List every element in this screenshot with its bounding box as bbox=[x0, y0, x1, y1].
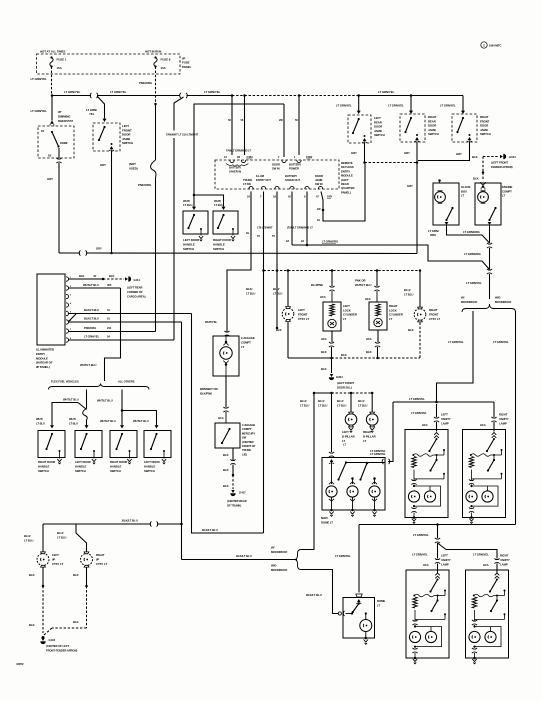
svg-text:1G: 1G bbox=[317, 219, 320, 222]
wire GRY down bbox=[416, 142, 418, 163]
engine compartment lamp assembly bbox=[481, 182, 486, 184]
wire vanity bus upper bbox=[393, 401, 494, 403]
vanity ground bbox=[470, 516, 473, 519]
node bus-left bbox=[51, 94, 54, 97]
left front door jamb switch bbox=[93, 123, 120, 151]
svg-text:WHT/LT BLU: WHT/LT BLU bbox=[80, 363, 96, 367]
node bbox=[366, 462, 369, 465]
wire bus to right front jamb switch bbox=[462, 96, 464, 112]
svg-text:LT GRN/YEL: LT GRN/YEL bbox=[370, 449, 386, 453]
svg-text:SWITCH: SWITCH bbox=[38, 469, 49, 473]
dome lamp post bbox=[365, 612, 367, 614]
connector on GRY bus bbox=[79, 250, 87, 255]
wire bus segment bbox=[187, 95, 233, 97]
connector C1 on bus bbox=[90, 93, 98, 98]
svg-text:RIGHT DOOR: RIGHT DOOR bbox=[110, 460, 127, 464]
wire pin5 BLK/LT BLU bbox=[68, 313, 192, 315]
svg-text:465: 465 bbox=[107, 283, 112, 287]
svg-text:LT BLU: LT BLU bbox=[358, 404, 367, 408]
wire down to G304 bbox=[331, 358, 333, 373]
wire WHT/LT BLU to split bbox=[105, 288, 121, 381]
svg-text:SWITCH: SWITCH bbox=[480, 132, 491, 136]
svg-text:WHT/LT BLU: WHT/LT BLU bbox=[133, 419, 149, 423]
svg-text:HANDLE: HANDLE bbox=[110, 465, 121, 469]
wire to rheostat bbox=[51, 96, 53, 121]
svg-text:POWER: POWER bbox=[289, 167, 299, 171]
svg-text:VANITY: VANITY bbox=[441, 558, 451, 562]
svg-text:PNK OR: PNK OR bbox=[355, 279, 366, 283]
svg-text:DOME LT: DOME LT bbox=[321, 521, 333, 525]
svg-text:HANDLE: HANDLE bbox=[183, 242, 195, 246]
svg-text:LUGGAGE: LUGGAGE bbox=[242, 423, 255, 427]
svg-text:BLK: BLK bbox=[73, 573, 79, 577]
right front courtesy lamp bbox=[414, 309, 426, 321]
ground G104 right bbox=[500, 155, 503, 158]
wire to 4th switch bbox=[122, 411, 157, 426]
svg-text:HANDLE: HANDLE bbox=[213, 242, 225, 246]
svg-text:C: C bbox=[483, 43, 485, 47]
svg-text:MOONROOF: MOONROOF bbox=[271, 550, 288, 554]
svg-text:MOONROOF: MOONROOF bbox=[495, 300, 512, 304]
svg-text:44872: 44872 bbox=[16, 662, 24, 666]
svg-text:BLK/LT BLU: BLK/LT BLU bbox=[122, 519, 138, 523]
svg-text:LT SW: LT SW bbox=[243, 182, 251, 186]
svg-text:SWITCH: SWITCH bbox=[374, 133, 385, 137]
connector bbox=[487, 269, 492, 274]
svg-text:BLK: BLK bbox=[109, 274, 114, 278]
node GRY junction bbox=[416, 161, 419, 164]
wire GRY long down bbox=[416, 163, 418, 254]
svg-text:FLEX FUEL VEHICLES: FLEX FUEL VEHICLES bbox=[51, 380, 79, 384]
wire lamp ground dashed bbox=[419, 323, 421, 359]
left front courtesy lamp bbox=[282, 308, 294, 320]
svg-text:BLK: BLK bbox=[79, 274, 84, 278]
wire to right b-pillar lamp bbox=[371, 393, 373, 412]
svg-text:GRY: GRY bbox=[351, 151, 357, 155]
wire pin6 BLK/LT BLU bbox=[68, 321, 182, 323]
wire W/O moonroof to dome switch bbox=[301, 570, 339, 614]
svg-text:RIGHT DOOR: RIGHT DOOR bbox=[213, 238, 232, 242]
wire to upper left vanity bbox=[434, 417, 439, 422]
svg-text:HCA: HCA bbox=[320, 295, 326, 299]
svg-text:G104: G104 bbox=[509, 155, 516, 159]
svg-text:G304: G304 bbox=[336, 375, 343, 379]
wire W/O moonroof bus bbox=[359, 524, 516, 526]
svg-text:ENTRY OUT: ENTRY OUT bbox=[256, 178, 271, 182]
svg-text:BLK: BLK bbox=[321, 367, 327, 371]
svg-text:(CENTER OF LEFT: (CENTER OF LEFT bbox=[46, 644, 69, 648]
svg-text:ILLUMINATED: ILLUMINATED bbox=[36, 348, 54, 352]
svg-text:GRY: GRY bbox=[407, 184, 413, 188]
svg-text:SWITCH: SWITCH bbox=[110, 469, 121, 473]
svg-text:LEFT DOOR: LEFT DOOR bbox=[75, 460, 91, 464]
right b-pillar lamp bbox=[366, 414, 378, 426]
svg-text:HANDLE: HANDLE bbox=[75, 465, 86, 469]
svg-text:BLU/: BLU/ bbox=[273, 287, 280, 291]
svg-text:W/O: W/O bbox=[495, 296, 501, 300]
right door handle switch bbox=[110, 431, 137, 458]
svg-text:HCA: HCA bbox=[321, 337, 327, 341]
node handle feed bbox=[193, 194, 196, 197]
wire to upper right vanity bbox=[491, 417, 496, 422]
node bbox=[102, 278, 105, 281]
node bbox=[376, 269, 379, 272]
rheostat case entry bbox=[50, 121, 54, 124]
svg-text:SW IN: SW IN bbox=[272, 167, 280, 171]
wire bus to module pin 13 bbox=[231, 96, 233, 156]
wire dashed BLK bbox=[332, 357, 378, 359]
node bbox=[331, 269, 334, 272]
svg-text:9A: 9A bbox=[286, 240, 289, 243]
svg-text:LT GRN/YEL: LT GRN/YEL bbox=[413, 533, 429, 537]
svg-text:CTSY LT: CTSY LT bbox=[429, 317, 440, 321]
svg-text:LT GRN/YEL: LT GRN/YEL bbox=[378, 90, 395, 94]
svg-text:LT GRN/YEL: LT GRN/YEL bbox=[335, 554, 351, 558]
wire glove lamp to connector bbox=[447, 225, 490, 243]
svg-text:BRN/WHT OR: BRN/WHT OR bbox=[200, 387, 218, 391]
harness split bracket bbox=[462, 304, 516, 312]
svg-text:LT GRN/YEL: LT GRN/YEL bbox=[336, 104, 352, 108]
svg-text:LEFT: LEFT bbox=[298, 308, 305, 312]
connector map feed bbox=[329, 452, 334, 457]
svg-text:VANITY: VANITY bbox=[499, 417, 509, 421]
wire b-pillar bus bbox=[314, 392, 332, 394]
wire bus dashed segment bbox=[299, 95, 359, 97]
svg-text:CTSY LT: CTSY LT bbox=[96, 562, 107, 566]
svg-text:GRY: GRY bbox=[327, 195, 333, 199]
svg-text:LEFT DOOR: LEFT DOOR bbox=[144, 460, 160, 464]
svg-text:PANEL): PANEL) bbox=[341, 190, 351, 194]
wire to left lock cylinder bbox=[331, 271, 333, 287]
svg-text:LT: LT bbox=[377, 604, 380, 608]
wire illum entry stub bbox=[276, 271, 278, 328]
right lock cylinder lamp bbox=[369, 302, 387, 330]
wire LT GRN/ORG run bbox=[292, 245, 490, 270]
luggage compt switch mercury bbox=[215, 423, 240, 448]
svg-text:RIGHT: RIGHT bbox=[363, 430, 372, 434]
wire to moonroof split bbox=[489, 274, 491, 299]
wire bus to right rear jamb switch bbox=[410, 96, 412, 112]
wire all others branch bbox=[121, 390, 123, 426]
dome lamp mid bbox=[347, 486, 358, 497]
connector bbox=[375, 342, 380, 347]
svg-text:PANEL: PANEL bbox=[182, 65, 192, 69]
wire pin2 WHT/LT BLU bbox=[68, 287, 121, 289]
svg-text:I/P PANEL): I/P PANEL) bbox=[36, 365, 50, 369]
wire BLK/LT BLU pin6 long run bbox=[181, 322, 183, 560]
svg-text:LAMP: LAMP bbox=[441, 421, 449, 425]
svg-text:LT BLU: LT BLU bbox=[36, 422, 45, 426]
svg-text:BATTERY: BATTERY bbox=[285, 174, 297, 178]
left vanity lamp upper assembly bbox=[405, 430, 448, 518]
wire illum entry out 2 bbox=[276, 192, 278, 271]
node bbox=[121, 409, 124, 412]
glove box lamp assembly bbox=[433, 183, 459, 225]
svg-text:LT6 LT2/WHT: LT6 LT2/WHT bbox=[257, 226, 273, 230]
svg-text:(CENTER REAR: (CENTER REAR bbox=[227, 499, 247, 503]
ground below right handle switch bbox=[232, 229, 234, 236]
svg-text:LT GRN/YEL: LT GRN/YEL bbox=[409, 397, 425, 401]
svg-text:BLU/: BLU/ bbox=[337, 399, 344, 403]
svg-text:BLK: BLK bbox=[321, 350, 327, 354]
node bbox=[287, 269, 290, 272]
svg-text:LT: LT bbox=[241, 345, 244, 349]
svg-text:LT BLU: LT BLU bbox=[404, 293, 413, 297]
svg-text:SWITCH: SWITCH bbox=[144, 469, 155, 473]
svg-text:G417: G417 bbox=[239, 491, 246, 495]
lamp grounds bbox=[331, 498, 333, 511]
wire luggage down bbox=[225, 376, 227, 407]
svg-text:LT BLU: LT BLU bbox=[214, 203, 223, 207]
svg-text:LT GRN/ORG: LT GRN/ORG bbox=[464, 252, 481, 256]
svg-text:SW: SW bbox=[242, 436, 247, 440]
svg-text:BLU/: BLU/ bbox=[300, 399, 307, 403]
wire GRY bus bbox=[59, 252, 80, 254]
svg-text:1994 MITC: 1994 MITC bbox=[489, 43, 501, 47]
svg-text:HCA: HCA bbox=[480, 423, 486, 427]
svg-text:LEFT: LEFT bbox=[342, 430, 349, 434]
wire GRY to junction bbox=[418, 142, 470, 161]
svg-text:CORNER OF: CORNER OF bbox=[127, 290, 143, 294]
svg-text:LT GRN/YEL: LT GRN/YEL bbox=[204, 90, 221, 94]
node pin9 junction bbox=[306, 244, 309, 247]
ground below left handle switch bbox=[200, 229, 202, 236]
svg-text:WHT/: WHT/ bbox=[69, 417, 76, 421]
node bus-358 bbox=[357, 94, 360, 97]
svg-text:WHT/LT BLU: WHT/LT BLU bbox=[100, 419, 116, 423]
connector bbox=[382, 459, 390, 464]
svg-text:DOME: DOME bbox=[60, 141, 68, 145]
svg-text:TRUNK: TRUNK bbox=[243, 178, 252, 182]
svg-text:BLK/LT BLU: BLK/LT BLU bbox=[236, 554, 252, 558]
split bracket flex fuel bbox=[49, 384, 150, 390]
svg-text:BLK/LT BLU: BLK/LT BLU bbox=[84, 317, 99, 321]
wire illum entry out 1 bbox=[263, 192, 265, 271]
svg-text:BLK/LT BLU: BLK/LT BLU bbox=[306, 593, 322, 597]
wire split to left switch bbox=[52, 403, 78, 426]
svg-text:LT GRN/YEL: LT GRN/YEL bbox=[84, 335, 100, 339]
node bus-411 bbox=[410, 94, 413, 97]
svg-text:(LEFT REAR: (LEFT REAR bbox=[127, 286, 142, 290]
svg-text:LT: LT bbox=[502, 194, 505, 198]
svg-text:TRUNK: TRUNK bbox=[242, 448, 251, 452]
svg-text:MOONROOF: MOONROOF bbox=[461, 300, 478, 304]
node bus-299 bbox=[298, 94, 301, 97]
wire GRY bus main bbox=[86, 252, 417, 255]
connector bbox=[374, 286, 379, 291]
wire jamb GRY down bbox=[111, 151, 113, 253]
wire fuse1 to bus bbox=[51, 67, 53, 96]
left door handle switch bbox=[183, 211, 208, 234]
node bbox=[419, 269, 422, 272]
wire to I/P courtesy lamps bbox=[157, 523, 182, 525]
wire to left front ctsy lamp bbox=[287, 271, 289, 307]
wire internal bus bbox=[346, 462, 385, 464]
map/dome lamp assembly bbox=[322, 458, 385, 511]
right door handle switch bbox=[38, 431, 65, 458]
left door handle switch bbox=[144, 431, 171, 458]
svg-text:FRONT OF: FRONT OF bbox=[242, 444, 256, 448]
svg-text:W/: W/ bbox=[461, 296, 465, 300]
fuse F1 bbox=[50, 56, 52, 58]
svg-text:LT: LT bbox=[343, 443, 346, 447]
entry arrows bbox=[192, 207, 196, 210]
svg-text:HCA: HCA bbox=[218, 416, 224, 420]
svg-text:BLK: BLK bbox=[472, 155, 478, 159]
svg-text:GRY: GRY bbox=[100, 163, 106, 167]
svg-text:DIMMING: DIMMING bbox=[58, 114, 71, 118]
svg-text:RHEOSTAT: RHEOSTAT bbox=[58, 119, 73, 123]
svg-text:PNK/ORG: PNK/ORG bbox=[84, 326, 96, 330]
svg-text:LUGGAGE: LUGGAGE bbox=[241, 336, 255, 340]
node bbox=[85, 585, 88, 588]
wire pin7 PNK/ORG bbox=[68, 331, 156, 333]
svg-text:BLK: BLK bbox=[73, 620, 79, 624]
svg-text:LT GRN/YEL: LT GRN/YEL bbox=[31, 109, 48, 113]
svg-text:BLU/: BLU/ bbox=[404, 288, 411, 292]
svg-text:COMPT: COMPT bbox=[241, 340, 251, 344]
fuse F8 bbox=[154, 56, 156, 58]
wire trunk lamp feed bbox=[227, 192, 251, 332]
svg-text:LT: LT bbox=[363, 439, 366, 443]
wire ground bus to G304 bbox=[288, 357, 332, 359]
wire bus down to dome bbox=[358, 525, 360, 593]
svg-text:TAN/LT GRN/WHD LT: TAN/LT GRN/WHD LT bbox=[226, 149, 251, 153]
wire left branch to map/dome bbox=[388, 402, 393, 462]
wire to right front ctsy lamp bbox=[419, 271, 421, 308]
svg-text:RIGHT DOOR: RIGHT DOOR bbox=[38, 460, 55, 464]
right vanity lamp lower assembly bbox=[466, 570, 509, 658]
module bottom pins bbox=[249, 186, 253, 189]
svg-text:LAMP: LAMP bbox=[500, 562, 508, 566]
svg-text:FENDER APRON): FENDER APRON) bbox=[491, 165, 513, 169]
wire branch to right handle switch bbox=[194, 195, 224, 207]
svg-text:BLK: BLK bbox=[408, 328, 414, 332]
svg-text:PNK/ORG: PNK/ORG bbox=[138, 183, 152, 187]
svg-text:I/P: I/P bbox=[52, 558, 55, 562]
wire BLK grounds bbox=[42, 568, 44, 587]
wire lock cyl ground bbox=[331, 331, 333, 342]
svg-text:LT BLU: LT BLU bbox=[246, 292, 255, 296]
wire map lamp feed bbox=[331, 393, 333, 452]
svg-text:WHT/YEL: WHT/YEL bbox=[205, 320, 218, 324]
connector bbox=[230, 459, 235, 464]
wire bus segment bbox=[97, 95, 180, 97]
svg-text:LT BLU: LT BLU bbox=[318, 404, 327, 408]
wire left ip lamp drop bbox=[42, 524, 44, 552]
svg-text:BLK/LT BLU: BLK/LT BLU bbox=[84, 308, 99, 312]
svg-text:(CENTER: (CENTER bbox=[242, 440, 254, 444]
wire pin8 LT GRN/YEL bbox=[68, 339, 174, 341]
right door handle switch bbox=[213, 211, 238, 234]
wire pin1 BLK to G414 bbox=[68, 278, 102, 280]
luggage compartment lamp bbox=[213, 336, 239, 376]
wire lamp ground bbox=[287, 322, 289, 358]
copyright mark bbox=[481, 42, 487, 48]
svg-text:CTSY LT: CTSY LT bbox=[52, 562, 63, 566]
wire bus to module pin 1B bbox=[244, 96, 246, 156]
wire PNK/ORG down with break bbox=[155, 104, 157, 160]
map lamp posts bbox=[351, 477, 354, 480]
wire bus to module pin 1 bbox=[298, 96, 300, 156]
svg-text:GRY: GRY bbox=[96, 247, 102, 251]
svg-text:LT GRN/ORG: LT GRN/ORG bbox=[463, 230, 480, 234]
svg-text:VANITY: VANITY bbox=[500, 558, 510, 562]
svg-text:LT BLU: LT BLU bbox=[273, 292, 282, 296]
svg-text:RIGHT: RIGHT bbox=[96, 553, 105, 557]
switch blade 2 bbox=[361, 463, 368, 480]
svg-text:9A: 9A bbox=[301, 240, 304, 243]
right front door jamb switch bbox=[452, 114, 477, 142]
node splice bbox=[322, 209, 325, 212]
ground G414 bbox=[125, 277, 128, 280]
connector below rheostat bbox=[56, 158, 61, 163]
svg-text:241: 241 bbox=[107, 326, 112, 330]
svg-text:DOOR: DOOR bbox=[272, 163, 280, 167]
svg-text:SAVER IN: SAVER IN bbox=[229, 170, 241, 174]
svg-text:WHT/LT BLU: WHT/LT BLU bbox=[97, 399, 113, 403]
node bbox=[350, 392, 353, 395]
wire bbox=[489, 248, 491, 269]
wire split to both vanities bbox=[437, 543, 439, 559]
svg-text:DOOR SILL): DOOR SILL) bbox=[337, 386, 352, 390]
svg-text:BLK: BLK bbox=[29, 623, 35, 627]
map lamp 1 bbox=[326, 486, 337, 497]
connector bbox=[494, 558, 499, 563]
svg-text:LT GRN/YEL: LT GRN/YEL bbox=[493, 340, 509, 344]
svg-text:FRONT: FRONT bbox=[298, 312, 308, 316]
node bbox=[313, 392, 316, 395]
node GRY dash bbox=[363, 161, 366, 164]
wire courtesy dashed bus bbox=[264, 270, 421, 272]
node fuse8 splice bbox=[154, 103, 157, 106]
wire BLK/LT BLU pin5 long run bbox=[192, 314, 264, 534]
svg-text:LT GRN/YEL: LT GRN/YEL bbox=[412, 553, 428, 557]
node bus-244 bbox=[243, 94, 246, 97]
node bbox=[262, 269, 265, 272]
svg-text:HCA: HCA bbox=[422, 423, 428, 427]
connector dome switch entry bbox=[338, 612, 341, 615]
svg-text:CTSY LT: CTSY LT bbox=[298, 317, 309, 321]
svg-text:LT: LT bbox=[343, 317, 346, 321]
svg-text:GRY: GRY bbox=[456, 152, 462, 156]
svg-text:WHT/LT BLU: WHT/LT BLU bbox=[83, 283, 99, 287]
svg-text:B-PILLAR: B-PILLAR bbox=[363, 435, 376, 439]
map lamp 2 bbox=[369, 486, 380, 497]
left I/P courtesy lamp bbox=[37, 554, 49, 566]
connector luggage bbox=[224, 331, 229, 336]
svg-text:DOOR: DOOR bbox=[315, 174, 323, 178]
svg-text:LT BLU: LT BLU bbox=[337, 404, 346, 408]
wire BLK dashed to G104 bbox=[483, 156, 499, 158]
wire W/ moonroof LT GRN/YEL bbox=[437, 311, 474, 402]
svg-text:LT BLU: LT BLU bbox=[183, 203, 192, 207]
svg-text:HOT IN RUN: HOT IN RUN bbox=[145, 50, 161, 54]
svg-text:BLK: BLK bbox=[223, 453, 229, 457]
svg-text:SW IN: SW IN bbox=[315, 182, 323, 186]
svg-text:LT GRN/YEL: LT GRN/YEL bbox=[448, 340, 464, 344]
svg-text:COMPT: COMPT bbox=[242, 427, 252, 431]
node bbox=[330, 357, 333, 360]
wire door jamb sw in GRY bbox=[321, 163, 365, 222]
svg-text:BLK/PNK: BLK/PNK bbox=[200, 392, 212, 396]
connector bbox=[487, 243, 492, 248]
svg-text:LAMP: LAMP bbox=[441, 562, 449, 566]
svg-text:MERCURY: MERCURY bbox=[242, 431, 255, 435]
connector bbox=[435, 538, 440, 543]
wire bus tap to module pin 8 bbox=[174, 97, 184, 131]
wire battery saver out 9 bbox=[306, 192, 308, 246]
